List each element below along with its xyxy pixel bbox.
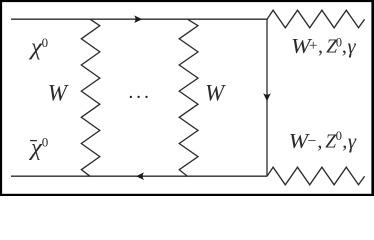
label W-, Z0, gamma	[289, 129, 357, 153]
label W+, Z0, gamma	[291, 34, 357, 58]
svg-text:γ: γ	[348, 36, 357, 58]
svg-text:,: ,	[342, 36, 347, 58]
label W (right exchange)	[205, 80, 226, 105]
svg-text:,: ,	[342, 131, 347, 153]
svg-text:−: −	[307, 133, 316, 150]
arrow on top chi0 line (pointing right)	[134, 15, 142, 23]
svg-text:,: ,	[318, 36, 323, 58]
ellipsis dots (ladder continuation)	[130, 96, 148, 98]
outgoing boson zigzag W+/Z0/gamma (top right)	[267, 10, 365, 28]
svg-text:W: W	[205, 80, 226, 105]
arrow on bottom chibar0 line (pointing left)	[136, 172, 144, 180]
label chi0	[29, 34, 48, 61]
svg-text:,: ,	[317, 131, 322, 153]
svg-text:0: 0	[336, 129, 342, 143]
outgoing boson zigzag W-/Z0/gamma (bottom right)	[267, 167, 365, 185]
arrow on internal fermion line (pointing down)	[263, 93, 271, 101]
svg-text:γ: γ	[348, 131, 357, 153]
fermion line chibar0 (bottom incoming anti-neutralino)	[11, 175, 267, 177]
label W (left exchange)	[48, 80, 69, 105]
svg-text:W: W	[48, 80, 69, 105]
W boson zigzag (left exchange boson)	[81, 19, 100, 176]
internal fermion line (right vertical chargino line)	[266, 19, 268, 176]
fermion line chi0 (top incoming neutralino)	[11, 18, 267, 20]
svg-text:Z: Z	[325, 131, 336, 152]
svg-text:+: +	[309, 38, 317, 54]
label chibar0 (chi-bar superscript 0)	[29, 134, 48, 161]
svg-text:0: 0	[42, 36, 48, 50]
W boson zigzag (right exchange boson)	[179, 19, 198, 176]
svg-text:0: 0	[42, 134, 49, 149]
